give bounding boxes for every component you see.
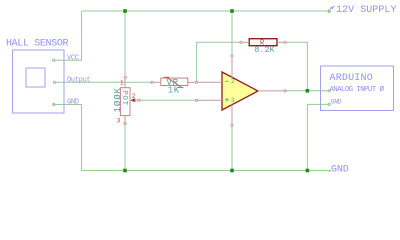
pot pin 3 (bottom) bbox=[124, 116, 126, 123]
op-amp V+ pin bbox=[231, 57, 233, 79]
svg-text:3: 3 bbox=[231, 97, 235, 104]
svg-text:HALL SENSOR: HALL SENSOR bbox=[6, 39, 69, 50]
wire: arduino GND to bottom rail bbox=[307, 104, 329, 170]
resistor R pins bbox=[242, 41, 249, 43]
hall pin GND bbox=[53, 103, 55, 105]
trimmer mark on VR bbox=[164, 77, 184, 87]
resistor VR pins bbox=[153, 81, 161, 83]
op-amp pin 2 (-in) bbox=[198, 81, 222, 83]
resistor VR 1K body (trimmer style) bbox=[161, 78, 188, 85]
supply arrow 12V bbox=[332, 6, 334, 8]
op-amp U2 bbox=[222, 72, 258, 110]
wire: rail to pot pin 1 bbox=[124, 11, 126, 77]
op-amp output pin bbox=[258, 90, 284, 92]
hall sensor box U1 bbox=[13, 50, 65, 113]
junction at (125,11) bbox=[123, 9, 127, 13]
resistor R 8.2K body bbox=[249, 39, 277, 46]
wire: hall VCC vertical from rail bbox=[54, 11, 82, 60]
wire: op-amp output to arduino A0 bbox=[285, 90, 329, 92]
junction at output node (307.4,90.8) bbox=[306, 89, 310, 93]
svg-text:Output: Output bbox=[67, 77, 91, 85]
svg-text:VCC: VCC bbox=[67, 55, 79, 63]
wire: hall Output to R-VR 1K bbox=[54, 81, 152, 83]
wire: R 8.2K to output node bbox=[285, 42, 307, 91]
svg-text:2: 2 bbox=[231, 78, 235, 85]
pot wiper pin 2 arrow bbox=[130, 98, 135, 102]
op-amp pin 3 (+in) bbox=[198, 99, 222, 101]
arduino pin ANALOG INPUT 0 bbox=[328, 90, 330, 92]
svg-text:1: 1 bbox=[120, 79, 124, 86]
wire: top +12V rail bbox=[82, 10, 329, 12]
svg-text:2: 2 bbox=[132, 93, 136, 100]
junction at (232,170.5) bbox=[230, 169, 234, 173]
hall sensor inner square bbox=[26, 68, 45, 87]
node: 12V supply end marker bbox=[328, 10, 330, 12]
arduino box bbox=[321, 66, 394, 111]
svg-text:ARDUINO: ARDUINO bbox=[330, 73, 373, 84]
wire: pot wiper to op-amp +in bbox=[139, 99, 197, 101]
op-amp plus mark bbox=[225, 98, 228, 101]
wire: hall GND to bottom rail bbox=[54, 105, 82, 171]
hall pin VCC bbox=[53, 59, 55, 61]
junction at (232,11) bbox=[230, 9, 234, 13]
op-amp minus mark bbox=[225, 80, 228, 82]
pot pin 1 (top) bbox=[124, 79, 126, 88]
svg-text:GND: GND bbox=[331, 165, 349, 176]
svg-text:12V SUPPLY: 12V SUPPLY bbox=[336, 5, 397, 16]
op-amp V- pin bbox=[231, 105, 233, 124]
wire: pot pin 3 to bottom rail bbox=[124, 123, 126, 170]
wire: rail to op-amp V+ bbox=[231, 11, 233, 56]
wire: bottom GND rail bbox=[82, 170, 331, 172]
svg-text:1ØØK: 1ØØK bbox=[113, 87, 123, 112]
svg-text:3: 3 bbox=[117, 118, 121, 125]
svg-text:8.2K: 8.2K bbox=[255, 46, 275, 55]
svg-text:ANALOG INPUT Ø: ANALOG INPUT Ø bbox=[329, 85, 384, 94]
wire: feedback from -in up and to R 8.2K bbox=[197, 42, 241, 82]
junction at (125,170.5) bbox=[123, 169, 127, 173]
svg-text:GND: GND bbox=[331, 99, 342, 106]
arduino pin GND bbox=[328, 103, 330, 105]
wire: op-amp V- to bottom rail bbox=[231, 125, 233, 170]
node: GND end marker bbox=[329, 170, 331, 171]
hall pin Output bbox=[53, 81, 55, 83]
svg-text:1K: 1K bbox=[168, 86, 180, 96]
potentiometer POT 100K body bbox=[120, 88, 130, 116]
junction at (307.4,170.5) bbox=[306, 169, 310, 173]
svg-text:GND: GND bbox=[67, 99, 79, 107]
